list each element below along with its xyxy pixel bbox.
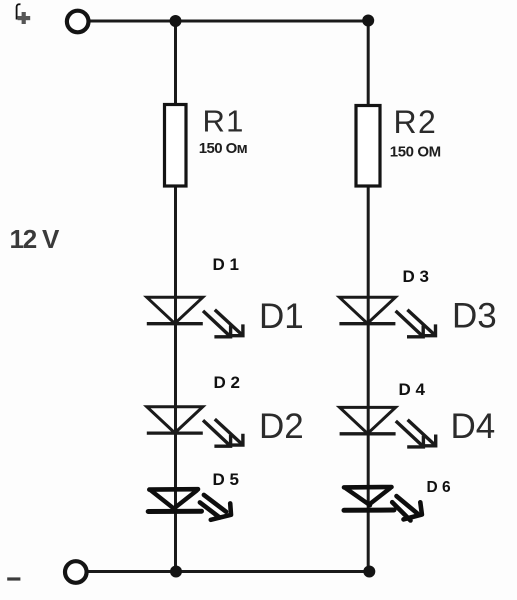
svg-text:12 V: 12 V — [10, 224, 61, 254]
svg-text:D 2: D 2 — [214, 373, 240, 392]
svg-text:D1: D1 — [259, 297, 304, 336]
svg-text:D2: D2 — [259, 407, 304, 446]
svg-text:D 5: D 5 — [213, 470, 239, 489]
svg-text:150 Ом: 150 Ом — [199, 140, 248, 157]
svg-text:D 1: D 1 — [213, 255, 239, 274]
svg-text:D3: D3 — [452, 296, 497, 335]
svg-text:D4: D4 — [451, 407, 496, 446]
svg-text:D 4: D 4 — [399, 380, 426, 399]
svg-text:D 6: D 6 — [427, 479, 452, 496]
svg-text:R1: R1 — [203, 104, 245, 139]
svg-text:150 ОМ: 150 ОМ — [390, 144, 441, 161]
svg-text:R2: R2 — [394, 104, 438, 140]
svg-text:D 3: D 3 — [403, 267, 429, 286]
